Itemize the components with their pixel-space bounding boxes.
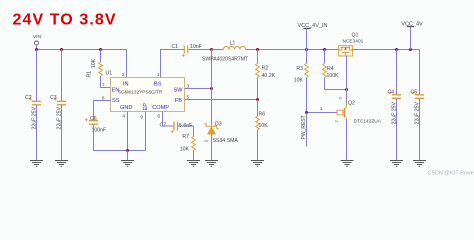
svg-text:22uF 25V: 22uF 25V	[392, 101, 398, 124]
svg-text:22uF 25V: 22uF 25V	[32, 106, 38, 129]
capacitor C7	[160, 122, 193, 134]
svg-text:40.2K: 40.2K	[262, 73, 276, 79]
svg-text:R1: R1	[87, 71, 93, 78]
svg-text:L1: L1	[230, 41, 236, 47]
transistor Q2	[334, 97, 382, 125]
resistor R2	[256, 50, 276, 100]
wire GND pin	[127, 112, 129, 151]
node R2 top junction	[256, 48, 259, 51]
wire FB	[185, 99, 258, 101]
wire net stub	[306, 113, 308, 147]
node FB junction	[256, 98, 259, 101]
svg-text:10K: 10K	[259, 123, 269, 129]
svg-text:COMP: COMP	[152, 105, 169, 111]
wire EN	[101, 87, 111, 89]
wire EP pin	[145, 112, 147, 151]
svg-text:22uF 25V: 22uF 25V	[415, 101, 421, 124]
diode D3	[204, 122, 238, 145]
svg-text:R6: R6	[259, 112, 266, 118]
svg-text:C6: C6	[90, 116, 97, 122]
svg-text:R2: R2	[262, 66, 269, 72]
ground D3	[205, 161, 218, 167]
inductor L1	[202, 41, 258, 63]
ground R7	[187, 161, 200, 167]
svg-text:2: 2	[122, 72, 125, 78]
node SW pin junction	[210, 87, 213, 90]
capacitor C3	[50, 50, 66, 161]
capacitor C6	[85, 116, 106, 134]
resistor R7	[180, 132, 196, 161]
ground C5	[413, 161, 426, 167]
wire IN drop	[126, 50, 128, 78]
svg-text:VCC_4V_IN: VCC_4V_IN	[298, 23, 328, 29]
node R1 junction	[99, 48, 102, 51]
svg-text:R4: R4	[327, 66, 334, 72]
svg-text:4: 4	[122, 114, 125, 120]
node gnd bus junction	[126, 149, 129, 152]
svg-text:SS: SS	[112, 98, 120, 104]
power VCC_4V_IN	[298, 23, 328, 50]
ground C4	[390, 161, 403, 167]
ground C3	[55, 161, 68, 167]
svg-text:C5: C5	[411, 90, 418, 96]
svg-text:C4: C4	[388, 90, 395, 96]
wire SW vertical	[211, 50, 213, 126]
svg-text:C2: C2	[25, 95, 32, 101]
svg-text:R7: R7	[182, 134, 189, 140]
node R3/VCC junction	[305, 48, 308, 51]
capacitor C2	[25, 50, 41, 161]
node gate junction	[345, 88, 348, 91]
wire SS	[94, 101, 111, 121]
svg-text:C7: C7	[160, 123, 167, 129]
svg-text:10K: 10K	[294, 78, 304, 84]
svg-text:22uF 25V: 22uF 25V	[57, 106, 63, 129]
transistor Q1	[339, 33, 364, 57]
wire C6 to gnd bus	[94, 125, 146, 151]
node SW junction top	[210, 48, 213, 51]
svg-text:BS: BS	[154, 82, 162, 88]
ground R6	[251, 161, 264, 167]
wire gnd stub	[127, 151, 129, 161]
wire SW pin	[185, 88, 212, 90]
wire VCC_4V rail	[352, 49, 420, 51]
svg-text:GND: GND	[120, 105, 132, 111]
capacitor C1	[172, 44, 202, 57]
wire VCC_4V_IN rail	[258, 49, 339, 51]
svg-text:SS34 SMA: SS34 SMA	[213, 138, 239, 144]
svg-text:7: 7	[102, 83, 105, 89]
ground Q2	[341, 161, 354, 167]
wire R4 to gate	[325, 89, 347, 91]
svg-text:C3: C3	[50, 95, 57, 101]
IC U1 SGM6132YPS8G buck regulator	[106, 71, 185, 112]
ground U1	[121, 161, 134, 167]
wire D3 to gnd	[211, 134, 213, 160]
svg-text:100K: 100K	[327, 73, 340, 79]
resistor R6	[256, 100, 269, 161]
port VIN	[33, 34, 42, 50]
capacitor C5	[411, 50, 425, 161]
svg-text:rv: rv	[205, 138, 208, 143]
svg-text:1: 1	[320, 106, 323, 112]
svg-text:DTC143ZUA: DTC143ZUA	[354, 119, 382, 125]
svg-text:R3: R3	[296, 66, 303, 72]
svg-text:VIN: VIN	[33, 34, 42, 40]
node VCC_4V junction	[409, 48, 412, 51]
node PW net junction	[305, 111, 308, 114]
wire C1 to SW node	[188, 49, 211, 51]
svg-text:10K: 10K	[180, 147, 190, 153]
svg-text:Q1: Q1	[352, 33, 359, 39]
node C3 junction	[60, 48, 63, 51]
svg-text:SGM6132YPS8G/TR: SGM6132YPS8G/TR	[118, 90, 163, 95]
svg-text:NCE3401: NCE3401	[343, 39, 364, 45]
svg-text:SWPA4020S4R7MT: SWPA4020S4R7MT	[202, 57, 248, 63]
svg-text:FB: FB	[175, 98, 182, 104]
wire R3 to Q2 base	[307, 112, 338, 114]
wire Q2 emitter	[346, 120, 348, 161]
svg-text:EN: EN	[112, 88, 120, 94]
wire VIN rail	[37, 49, 127, 51]
svg-text:10K: 10K	[91, 58, 97, 68]
wire gate to Q2 collector	[346, 90, 348, 103]
svg-text:CSDN @IOT-Power: CSDN @IOT-Power	[428, 171, 474, 177]
svg-text:24V TO 3.8V: 24V TO 3.8V	[13, 12, 116, 29]
wire C7 to R7	[178, 126, 194, 132]
svg-text:IN: IN	[123, 82, 129, 88]
capacitor C4	[388, 50, 402, 161]
svg-text:C1: C1	[172, 44, 179, 50]
resistor R1	[87, 50, 103, 88]
svg-text:D3: D3	[215, 122, 222, 128]
node C4 junction	[395, 48, 398, 51]
node VIN/C2 junction	[35, 48, 38, 51]
wire Q1 gate down	[346, 56, 348, 90]
svg-text:Q2: Q2	[348, 101, 355, 107]
svg-text:U1: U1	[106, 71, 113, 77]
power VCC_4V	[401, 22, 423, 50]
svg-text:EP: EP	[143, 103, 149, 111]
wire BS riser	[161, 50, 184, 78]
wire COMP drop	[163, 112, 174, 127]
svg-text:6: 6	[157, 114, 160, 120]
svg-text:1: 1	[157, 72, 160, 78]
resistor R3	[294, 50, 309, 113]
svg-text:SW: SW	[173, 88, 183, 94]
resistor R4	[323, 50, 340, 90]
svg-text:PW_REST: PW_REST	[301, 115, 307, 139]
node R4 junction	[323, 48, 326, 51]
svg-text:9: 9	[140, 115, 143, 121]
ground C2	[30, 161, 43, 167]
